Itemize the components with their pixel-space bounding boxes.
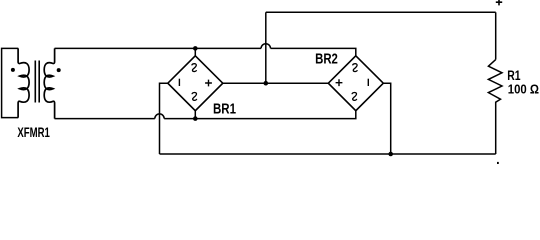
svg-text:BR2: BR2 [315, 51, 338, 67]
svg-text:XFMR1: XFMR1 [17, 125, 50, 140]
svg-text:BR1: BR1 [213, 101, 236, 117]
svg-text:100 Ω: 100 Ω [508, 81, 540, 96]
